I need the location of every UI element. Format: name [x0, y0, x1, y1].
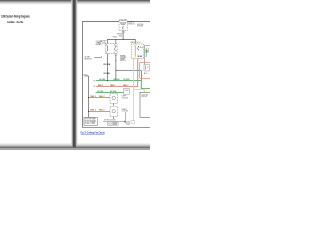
- legend box: [84, 117, 97, 125]
- connector box C3 right edge: [144, 46, 152, 62]
- relay K2 coil: [134, 46, 136, 56]
- relay K2 switch: [137, 45, 140, 48]
- motor FM2 dashed box: [110, 107, 117, 117]
- junction dot S102: [123, 39, 124, 40]
- svg-text:Fig. 3: Cooling Fan Circuit: Fig. 3: Cooling Fan Circuit: [81, 131, 105, 135]
- bottom grey strip: [0, 148, 150, 150]
- junction dot: [114, 69, 117, 72]
- coolant switch SW1 on wire: [115, 54, 117, 71]
- page divider bar: [73, 0, 76, 147]
- svg-text:C100: C100: [124, 90, 129, 92]
- wire drop to relay K2: [134, 39, 136, 44]
- junction dot row1: [107, 80, 108, 81]
- yellow wire: [134, 55, 136, 120]
- relay K1 dashed box: [105, 44, 117, 54]
- wire vertical to callout: [124, 112, 126, 123]
- svg-text:1040: 1040: [119, 36, 123, 38]
- pink highlight box: [140, 62, 152, 78]
- svg-text:DK GRN: DK GRN: [123, 79, 130, 81]
- connector box C4 in pink: [144, 64, 150, 71]
- motor FM2 ground stub: [113, 117, 115, 119]
- left ground wire vertical: [85, 76, 89, 117]
- svg-text:REQUEST: REQUEST: [85, 59, 92, 61]
- svg-text:MODULE: MODULE: [141, 96, 146, 98]
- boxed connector label: [108, 122, 119, 125]
- svg-text:COOLING: COOLING: [96, 41, 103, 43]
- relay K1 coil: [106, 46, 108, 51]
- small grey connector: [127, 122, 130, 125]
- fuse element: [121, 26, 124, 30]
- svg-text:DK GRN: DK GRN: [113, 79, 120, 81]
- svg-text:DK GRN: DK GRN: [99, 79, 106, 81]
- diagram border frame: [83, 21, 151, 127]
- green wire row 1: [96, 81, 151, 89]
- junction dot row4: [88, 97, 89, 98]
- svg-text:DK GRN: DK GRN: [110, 91, 117, 93]
- red mark in C4: [147, 67, 148, 68]
- motor FM1 symbol: [112, 96, 115, 99]
- green wire row 3: [96, 92, 124, 94]
- wire K1 pin85 down: [106, 54, 108, 81]
- svg-text:RIGHT: RIGHT: [122, 109, 127, 111]
- wire C3 down: [144, 62, 146, 64]
- svg-text:COOLING: COOLING: [141, 94, 148, 96]
- tan wire row 4: [88, 97, 110, 99]
- relay K2 dashed box: [131, 44, 144, 58]
- svg-text:RED 2: RED 2: [110, 85, 115, 87]
- svg-text:RED 2: RED 2: [98, 85, 103, 87]
- red speck in C3: [148, 49, 149, 50]
- red wire row 2: [96, 59, 138, 87]
- relay K1 switch: [114, 45, 117, 48]
- svg-text:LEFT: LEFT: [122, 96, 127, 98]
- module box M1 bottom right: [140, 92, 151, 117]
- svg-text:DK GRN: DK GRN: [104, 73, 111, 75]
- wire fuse to splice: [122, 31, 124, 40]
- svg-text:RED 2: RED 2: [113, 36, 118, 38]
- svg-text:RED/WHT: RED/WHT: [117, 33, 122, 35]
- fuse F1 dashed box: [119, 21, 127, 31]
- caption underline: [81, 133, 105, 135]
- junction dot row5: [88, 111, 89, 112]
- svg-text:30 AMP: 30 AMP: [121, 23, 127, 26]
- svg-text:Cadillac - Deville: Cadillac - Deville: [7, 20, 23, 24]
- top shadow band: [0, 0, 150, 5]
- svg-text:FUSE BLOCK: FUSE BLOCK: [128, 24, 135, 26]
- wire A/C request: [94, 56, 102, 58]
- svg-text:OF ENGINE): OF ENGINE): [137, 26, 143, 28]
- svg-text:DK GRN: DK GRN: [104, 64, 111, 66]
- page background: [0, 0, 150, 150]
- wire drop to relay K1 pin 30: [115, 39, 117, 43]
- yellow end connector: [131, 121, 135, 124]
- green mark in C4: [145, 65, 147, 69]
- bottom shadow band: [0, 143, 150, 144]
- svg-text:C2: C2: [108, 123, 112, 125]
- svg-text:C1: C1: [93, 86, 95, 88]
- svg-text:COOLING: COOLING: [122, 97, 129, 99]
- wire right vertical: [140, 70, 142, 80]
- tan wire row 5: [88, 111, 110, 113]
- motor FM1 dashed box: [110, 93, 117, 103]
- splice S102 bus wire: [107, 38, 135, 40]
- connector box C5 at row3 end: [124, 88, 130, 94]
- svg-text:DK GRN: DK GRN: [137, 56, 142, 58]
- wire horizontal mid: [116, 69, 141, 71]
- svg-text:C2: C2: [93, 80, 95, 82]
- svg-text:C1: C1: [122, 32, 125, 34]
- svg-text:C100 CONN: C100 CONN: [85, 123, 95, 125]
- wire drop to relay K1 pin 86: [106, 39, 108, 43]
- svg-text:W/O HD COOLING: W/O HD COOLING: [104, 120, 116, 122]
- svg-text:1998 System Wiring Diagrams: 1998 System Wiring Diagrams: [1, 14, 30, 18]
- svg-text:RED 2: RED 2: [123, 85, 128, 87]
- yellow branch to module: [134, 90, 145, 93]
- svg-text:BLK: BLK: [84, 75, 88, 77]
- svg-text:30: 30: [140, 47, 144, 49]
- wire SW1 down to green row: [115, 70, 117, 80]
- svg-text:DK GRN: DK GRN: [97, 91, 104, 93]
- callout arrow wire: [103, 121, 124, 123]
- green element in C3: [145, 48, 147, 57]
- motor FM1 ground stub: [113, 103, 115, 105]
- motor FM2 symbol: [112, 110, 115, 113]
- svg-text:SWITCH: SWITCH: [120, 60, 126, 62]
